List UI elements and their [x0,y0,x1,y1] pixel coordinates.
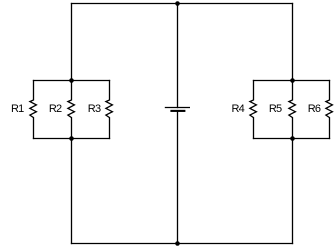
wire: right bank bottom bus [254,138,330,140]
svg-text:R3: R3 [88,103,101,115]
resistor R3 [106,81,113,139]
junction node: bottom center [175,241,180,246]
resistor R6 [326,81,333,139]
svg-text:R2: R2 [49,103,62,115]
svg-text:R1: R1 [11,103,24,115]
junction node: top center [175,1,180,6]
wire: left bank bottom bus [34,138,110,140]
resistor R4 [250,81,257,139]
wire: center vertical from battery negative plate to bottom rail [177,111,179,244]
junction node: left bank top [69,78,74,83]
wire: right vertical from top rail down to right bank [292,4,294,81]
resistor R5 [289,81,296,139]
junction node: left bank bottom [69,136,74,141]
resistor R2 [68,81,75,139]
wire: top horizontal rail [72,3,293,5]
svg-text:R4: R4 [232,103,245,115]
junction node: right bank top [290,78,295,83]
svg-text:R6: R6 [308,103,321,115]
wire: bottom horizontal rail [72,243,293,245]
resistor R1 [30,81,37,139]
wire: right vertical from right bank down to bottom rail [292,139,294,244]
battery V1 [165,108,190,111]
wire: center vertical from top rail to battery positive plate [177,4,179,108]
wire: left vertical from top rail down to left bank [71,4,73,81]
svg-text:R5: R5 [269,103,282,115]
junction node: right bank bottom [290,136,295,141]
wire: left vertical from left bank down to bottom rail [71,139,73,244]
wire: right bank top bus [254,80,330,82]
wire: left bank top bus [34,80,110,82]
